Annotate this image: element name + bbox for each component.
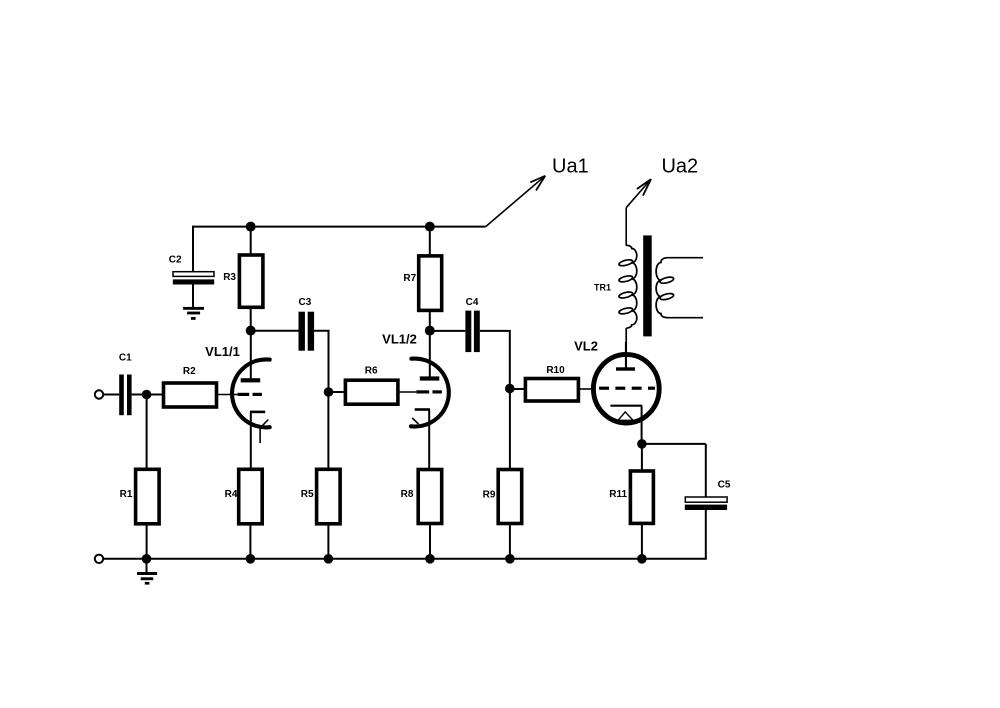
input terminal (top left) [95, 390, 103, 398]
VL1/2 filament tick [412, 418, 418, 424]
transformer TR1 core [643, 235, 652, 336]
VL1/1 anode plate [241, 378, 261, 382]
wire R9 to bottom rail [509, 524, 511, 559]
VL1/2 anode lead [429, 331, 431, 378]
wire C4 to junction (corner) [480, 331, 510, 389]
capacitor C2 (electrolytic) [173, 272, 214, 285]
wire R8 to bottom rail [429, 524, 431, 559]
VL1/2 grid (dashed) [416, 390, 442, 393]
VL2 anode lead [625, 342, 627, 369]
wire R4 to bottom rail [249, 524, 251, 559]
wire R5 to bottom rail [327, 524, 329, 559]
VL1/1 grid (dashed) [238, 393, 262, 396]
wire C5 top lead [705, 444, 707, 497]
VL2 heater triangle [618, 412, 633, 420]
wire TR1 primary bottom to VL2 anode [625, 328, 627, 369]
TR1 secondary loop 2 [659, 292, 674, 300]
wire R7 top lead [429, 227, 431, 256]
wire anode junction to C3 [251, 330, 299, 332]
wire junction to C5 [642, 443, 706, 445]
wire R6 to VL1/2 grid [398, 391, 417, 393]
TR1 primary winding [626, 245, 637, 328]
node rail/R5 [324, 554, 334, 564]
svg-text:R3: R3 [223, 272, 236, 283]
wire terminal to C1 [103, 394, 119, 396]
wire R3 top lead [250, 227, 252, 255]
VL1/1 cathode [250, 411, 265, 414]
wire junction to R10 [510, 388, 526, 390]
Ua1 arrow shaft [486, 176, 546, 227]
wire junction to R6 [329, 391, 346, 393]
svg-text:VL1/1: VL1/1 [205, 344, 240, 359]
resistor R11 [630, 471, 653, 523]
svg-text:Ua2: Ua2 [661, 156, 698, 178]
node anode junction VL1/2 [425, 326, 435, 336]
TR1 primary loop 3 [618, 291, 633, 299]
svg-text:R8: R8 [401, 489, 414, 500]
wire top supply rail [193, 226, 486, 228]
VL1/2 cathode [415, 408, 430, 411]
node top rail / R3 [246, 222, 256, 232]
VL1/1 filament stub [259, 427, 261, 443]
capacitor C1 [119, 375, 131, 416]
node junction C1/R1/R2 [142, 390, 152, 400]
VL1/2 anode plate [420, 376, 440, 380]
wire top rail down to C2 [192, 226, 194, 272]
svg-text:R10: R10 [546, 365, 565, 376]
tube VL2 envelope [593, 354, 659, 423]
node rail/R8 [425, 554, 435, 564]
Ua1 arrowhead [530, 176, 545, 191]
resistor R4 [239, 469, 263, 524]
VL2 cathode [610, 405, 642, 407]
VL2 anode plate [616, 367, 635, 370]
wire R10 to VL2 grid [578, 388, 593, 390]
node anode junction VL1/1 [246, 326, 256, 336]
node cathode junction VL2/R11/C5 [637, 439, 647, 449]
TR1 secondary loop 1 [659, 276, 674, 284]
svg-text:C1: C1 [119, 352, 132, 363]
wire junction to R1 [146, 395, 148, 470]
svg-text:R7: R7 [403, 273, 416, 284]
VL1/1 cathode lead [250, 412, 252, 469]
capacitor C3 [299, 312, 315, 351]
svg-text:R5: R5 [301, 489, 314, 500]
svg-text:C3: C3 [299, 297, 312, 308]
svg-text:R2: R2 [183, 366, 196, 377]
Ua2 arrow shaft [626, 179, 651, 208]
wire R2 to VL1/1 grid [217, 394, 238, 396]
wire C1 to R2 [132, 394, 164, 396]
wire anode junction to C4 [430, 330, 466, 332]
wire C3 to junction (corner) [314, 331, 328, 392]
TR1 primary loop 2 [618, 275, 633, 283]
node rail/R9 [505, 554, 515, 564]
wire R1 to bottom rail [146, 524, 148, 559]
node junction C3/R5/R6 [324, 387, 334, 397]
resistor R6 [345, 380, 398, 404]
wire junction to R11 [641, 444, 643, 471]
svg-text:R1: R1 [120, 489, 133, 500]
svg-text:C4: C4 [466, 297, 479, 308]
VL1/1 filament tick [260, 420, 268, 429]
resistor R7 [419, 256, 442, 311]
wire C2 to ground [192, 285, 194, 308]
ground (main) [137, 559, 157, 585]
VL2 grid (dashed) [599, 387, 655, 390]
ground (C2) [183, 307, 204, 320]
VL1/1 anode lead [250, 331, 252, 380]
TR1 secondary winding [656, 258, 703, 318]
wire C5 to bottom rail [705, 510, 707, 559]
triode VL1/2 envelope arc (mirrored) [411, 359, 449, 427]
svg-text:VL2: VL2 [574, 339, 598, 354]
svg-text:VL1/2: VL1/2 [382, 332, 417, 347]
wire R11 to bottom rail [641, 523, 643, 558]
VL2 cathode lead [641, 406, 643, 444]
wire junction to R9 [509, 389, 511, 470]
svg-text:C5: C5 [718, 480, 731, 491]
triode VL1/1 envelope arc [232, 359, 270, 427]
resistor R10 [525, 379, 578, 402]
node top rail / R7 [425, 222, 435, 232]
svg-text:TR1: TR1 [594, 283, 611, 293]
svg-text:R11: R11 [609, 489, 627, 500]
svg-text:R6: R6 [365, 366, 378, 377]
TR1 primary loop 1 [618, 259, 633, 267]
wire bottom rail [103, 558, 707, 560]
capacitor C4 [465, 311, 479, 353]
resistor R8 [418, 470, 442, 524]
resistor R9 [498, 470, 522, 524]
resistor R2 [164, 383, 217, 407]
svg-text:C2: C2 [169, 255, 182, 266]
Ua2 wire vertical [625, 208, 627, 246]
bottom terminal [95, 555, 103, 563]
wire junction to R5 [327, 392, 329, 469]
wire R3 bottom lead [250, 307, 252, 330]
node junction C4/R9/R10 [505, 384, 515, 394]
node rail/R1/ground [142, 554, 152, 564]
svg-text:R9: R9 [483, 490, 496, 501]
resistor R5 [317, 469, 341, 524]
resistor R3 [239, 255, 263, 307]
capacitor C5 (electrolytic) [685, 497, 727, 510]
svg-text:R4: R4 [225, 489, 238, 500]
wire R7 bottom lead [429, 310, 431, 330]
Ua2 arrowhead [637, 179, 651, 196]
VL1/2 cathode lead [428, 410, 430, 470]
node rail/R11 [637, 554, 647, 564]
TR1 primary loop 4 [618, 307, 633, 315]
svg-text:Ua1: Ua1 [552, 156, 589, 178]
resistor R1 [136, 469, 160, 524]
node rail/R4 [246, 554, 256, 564]
